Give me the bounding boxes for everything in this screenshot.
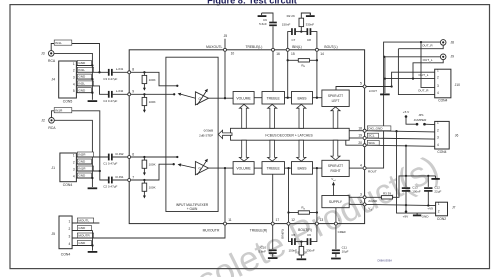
wire C4 to pin 9 [112,93,129,95]
pin 3 AGND [363,196,366,199]
connector J3 RCA jack [48,51,54,57]
connector J9 RCA jack [440,54,446,60]
resistor 100K (L-IN2) [142,97,147,105]
svg-text:CON4: CON4 [63,183,73,187]
svg-text:100K: 100K [149,163,156,167]
junction muxoutr [224,167,226,169]
svg-text:+ GAIN: + GAIN [187,207,198,211]
svg-text:1: 1 [73,153,75,157]
wire supply to pin2 [349,203,364,205]
wire J2 barrel to ground bus [54,120,92,164]
ground R2 [306,15,315,17]
svg-text:BASS: BASS [297,166,307,170]
capacitor C5 150nF [292,238,295,245]
net flag GND (J4 pin1) [77,61,91,66]
svg-text:C8: C8 [307,38,311,42]
svg-text:14: 14 [320,52,324,56]
wire 100K L2 top [143,94,145,97]
svg-text:R2 2K: R2 2K [287,14,295,18]
net flag IN2R (J1 pin1) [77,152,93,157]
resistor R1 2K [299,247,304,256]
wire SDA internal [346,140,365,145]
wire pin12 internal [288,168,290,224]
svg-text:C1 0.47µF: C1 0.47µF [103,162,117,166]
pin 6 R-IN2 [128,156,131,159]
latch arrow to SPKR ATT L [331,107,340,128]
svg-text:TREBLE: TREBLE [267,96,281,100]
pin 2 VS [363,203,366,206]
wire pin13 internal [316,168,318,224]
junction C12 VS [427,204,429,206]
svg-text:SUPPLY: SUPPLY [329,200,343,204]
arrow 100K R2 to ac ground [143,168,145,173]
svg-text:13: 13 [320,218,324,222]
latch arrow to SPKR ATT R [331,140,340,160]
svg-text:IN1R: IN1R [78,167,86,171]
svg-text:J7: J7 [452,206,456,210]
svg-text:1: 1 [437,69,439,73]
mux contact L-IN1 [176,85,178,87]
connector J10 CON4 body [435,69,451,98]
svg-text:15: 15 [291,52,295,56]
svg-text:5: 5 [360,82,362,86]
jumper JP1 pin B [423,123,426,126]
wire C7 to C8 [295,31,308,33]
svg-text:L-IN1: L-IN1 [116,67,124,71]
svg-text:MUXOUTL: MUXOUTL [206,45,222,49]
svg-text:5.6nF: 5.6nF [258,250,266,254]
wire OUT_R to J10 pin3 [421,42,435,87]
svg-text:1: 1 [437,121,439,125]
connector J7 CON2 body [436,202,448,216]
junction J1 bus pin4 [91,177,93,179]
mux contact R-IN2 [176,156,178,158]
svg-text:BOUT(L): BOUT(L) [324,45,337,49]
block VOLUME (right) [233,162,254,175]
wire J10 pin2 ground row [385,78,435,80]
wire J3 barrel to ground bus [54,53,92,65]
capacitor C10 5.6nF [269,250,277,253]
block I2C bus decoder and latches [231,128,350,140]
svg-text:11: 11 [228,218,232,222]
wire C6 to pin13 [310,224,317,242]
svg-text:IN2L: IN2L [78,82,85,86]
svg-text:2dB STEP: 2dB STEP [199,134,213,138]
pin 18 DIG_GND [363,129,366,132]
capacitor C9 5.6nF [269,23,277,26]
wire C13 top [405,176,407,187]
svg-text:CON5: CON5 [63,100,73,104]
svg-text:RIGHT: RIGHT [331,169,341,173]
svg-text:GND: GND [78,61,86,65]
wire pin10 test stub J5 [224,39,226,50]
connector J5 CON4 body [59,216,72,249]
wire J4 pin1 GND [76,65,92,67]
wire J4 pin3 GND [76,78,92,80]
svg-text:CREF: CREF [338,230,347,234]
wire R3 to ground link [393,176,436,197]
svg-text:IN1L: IN1L [78,68,85,72]
resistor Rb (left) [298,59,309,62]
svg-text:19: 19 [358,134,362,138]
pin 20 SDA [363,144,366,147]
svg-text:GND: GND [78,226,86,230]
junction C13 VS [405,204,407,206]
svg-text:2: 2 [73,160,75,164]
svg-text:+9V: +9V [403,215,410,219]
junction Rb-L left [287,59,289,61]
svg-text:4: 4 [437,91,439,95]
svg-text:JUMPER: JUMPER [414,118,427,122]
connector J4 CON5 body [59,61,77,98]
latch arrow to VOLUME R [239,140,248,161]
junction C13 top [405,175,407,177]
svg-text:IN1R: IN1R [55,109,63,113]
capacitor C4 0.47uF [109,91,112,98]
wire jumper to J6 pin1 [425,123,435,125]
wire SCL row [365,138,435,139]
wire J4 pin5 GND [76,92,92,94]
svg-text:17: 17 [276,218,280,222]
mux wiper (right) [181,165,196,168]
svg-text:100K: 100K [149,100,156,104]
wire J4 pin4 IN2L jog [76,86,108,94]
wire pin15 up to C7 [288,32,292,50]
wire J1 pin4 GND [76,177,92,179]
svg-text:10: 10 [231,52,235,56]
svg-text:C2 0.47µF: C2 0.47µF [103,185,117,189]
net flag GND (J4 pin5) [77,88,91,93]
pin 19 SCL [363,137,366,140]
pin 11 MUXOUTR [224,222,227,225]
junction J4 bus pin5 [91,92,93,94]
junction Rb-R left [287,211,289,213]
net flag IN1R (J2) [54,108,72,113]
svg-text:CON4: CON4 [61,252,71,256]
svg-text:3: 3 [360,193,362,197]
junction J9 barrel to gnd row [412,77,414,79]
wire C10 to ground [272,253,274,257]
svg-text:DIG_GND: DIG_GND [368,126,383,130]
wire 100K R1 top [143,180,145,183]
ground C9 [258,15,267,17]
wire J5 pin1 MOUTL [72,222,99,224]
wire Rb-R right stub [310,212,317,214]
svg-text:RCA: RCA [48,59,56,63]
svg-text:2: 2 [437,129,439,133]
wire R1 top [300,242,302,247]
wire Rb-R left stub [289,212,299,214]
wire treble-bass L [285,97,292,99]
svg-text:GND: GND [78,88,86,92]
block TREBLE (right) [262,162,285,175]
junction IN1L / J3 [98,71,100,73]
wire SDA row [365,145,435,146]
svg-text:R-IN2: R-IN2 [115,152,123,156]
svg-text:J9: J9 [451,55,455,59]
wire J8 barrel ground [398,45,443,49]
svg-text:10µF: 10µF [342,250,349,254]
arrow 100K L2 to ac ground [143,106,145,111]
wire 100K L1 top [143,72,145,75]
junction gnd bus pin2 row [384,77,386,79]
wire J1 pin1 IN2R to C1 [76,156,108,158]
block BASS (right) [292,162,313,175]
svg-text:18: 18 [358,126,362,130]
wire pin17 internal [272,174,274,223]
svg-text:12: 12 [291,218,295,222]
wire C2 to pin 7 [112,179,129,181]
svg-text:GND: GND [78,241,86,245]
wire J4 pin2 IN1L to C3 [76,71,108,73]
wire L-IN1 internal [129,72,177,86]
capacitor C11 10uF [332,250,340,253]
svg-text:+V9: +V9 [427,207,433,211]
wire VS row [365,204,436,205]
svg-text:OUT_R: OUT_R [418,88,429,92]
wire DIG_GND to GND row [397,131,436,213]
svg-text:OUT_L: OUT_L [423,58,433,62]
Vref arrow [333,185,335,196]
mux contact L-IN2 [173,93,175,95]
wire J3 to IN1L node [51,44,99,73]
wire J4 ground bus [91,66,93,100]
wire DIG_GND row [365,131,435,132]
net flag GND (J1 pin2) [77,159,91,164]
wire SDA link down [405,146,407,176]
block SUPPLY [322,196,349,208]
junction BIN(L) chain [287,97,289,99]
svg-text:C7: C7 [291,38,295,42]
wire pin12 to C5 [289,224,292,242]
wire J5 pin2 GND [72,230,92,232]
svg-text:J5: J5 [224,34,228,38]
block SPKR ATT RIGHT [322,160,349,176]
svg-text:J10: J10 [455,83,460,87]
svg-text:J4: J4 [51,78,55,82]
wire C8 to pin14 [310,32,317,50]
pin 17 TREBLE(R) [271,222,274,225]
net flag GND (J5 pin4) [77,241,91,246]
capacitor C12 22uF [424,188,432,191]
resistor 100K (L-IN1) [142,75,147,83]
svg-text:7: 7 [132,175,134,179]
junction BOUT(R) chain [316,167,318,169]
svg-text:TREBLE: TREBLE [267,166,281,170]
junction BOUT(L) chain [316,97,318,99]
svg-text:4: 4 [73,174,75,178]
pin 12 BIN(R) [287,222,290,225]
svg-text:16: 16 [276,52,280,56]
wire pin17 to C10 [272,224,274,250]
wire J5 pin3 MOUTR to pin 11 [72,224,225,238]
wire pin10 internal [224,50,226,98]
svg-text:5.6nF: 5.6nF [259,22,267,26]
svg-text:IN2R: IN2R [78,153,86,157]
jumper JP1 pin A [416,123,419,126]
svg-text:GND: GND [78,75,86,79]
junction C12 top [427,175,429,177]
wire bass-spkr R [313,167,322,169]
svg-text:SCL: SCL [368,134,374,138]
mux contact R-IN1 [173,163,175,165]
ground J4 bus [88,100,98,102]
capacitor C6 330nF [307,238,310,245]
svg-text:BIN(L): BIN(L) [292,45,302,49]
svg-text:3: 3 [437,84,439,88]
svg-text:J3: J3 [41,51,45,55]
junction C7-C8-R2 [300,30,302,32]
svg-text:MOUTR: MOUTR [78,234,90,238]
wire R-IN2 internal [129,156,177,158]
resistor Rb (right) [298,211,309,214]
block VOLUME (left) [233,92,254,105]
wire barrel bus to J10 pin4 [398,49,434,95]
pin 13 BOUT(R) [315,222,318,225]
wire +9V stub [405,205,407,212]
wire J2 to IN1R node [52,111,100,171]
junction Rb-L right [316,59,318,61]
node +5V terminal [405,115,408,118]
svg-text:J2: J2 [41,119,45,123]
net flag GND (J5 pin2) [77,226,91,231]
wire C1 to pin 6 [112,156,129,158]
junction BIN(R) chain [287,167,289,169]
ground R1 [297,258,307,260]
pin 9 L-IN2 [128,93,131,96]
wire J5 ground bus [92,231,94,251]
svg-text:100K: 100K [149,78,156,82]
svg-text:5: 5 [73,89,75,93]
svg-text:LEFT: LEFT [332,99,340,103]
wire C9 to ground [262,13,273,23]
latch arrow to input multiplexer [218,130,232,138]
svg-text:3: 3 [73,76,75,80]
wire pin1 to C11 [335,224,337,250]
ground output bus [380,93,390,95]
net flag SDA [367,140,379,145]
ground J5 bus [88,251,98,253]
net flag IN1R (J1 pin3) [77,166,93,171]
wire amp R out [209,167,234,169]
wire ROUT riser to J8 [365,42,441,168]
svg-text:LOUT: LOUT [369,89,377,93]
svg-text:9: 9 [132,90,134,94]
net flag DIG_GND [367,126,391,131]
svg-text:6: 6 [132,152,134,156]
svg-text:CON4: CON4 [437,150,446,154]
svg-text:2: 2 [438,210,440,214]
wire 100K R2 top [143,157,145,160]
svg-text:R-IN1: R-IN1 [115,175,123,179]
svg-text:C4 0.47µF: C4 0.47µF [103,99,117,103]
svg-text:4: 4 [437,143,439,147]
wire volume-treble L [254,97,262,99]
wire pin3 to R3 [365,196,382,198]
wire pin11 internal [224,168,226,224]
svg-text:BOUT(R): BOUT(R) [298,228,312,232]
wire LOUT row [365,86,392,88]
svg-text:ROUT: ROUT [368,170,377,174]
connector J2 RCA jack [49,118,55,124]
arrow 100K R1 to ac ground [143,191,145,196]
wire spkrL to pin5 [336,87,365,91]
svg-text:+5 V: +5 V [403,110,410,114]
svg-text:0/30dB: 0/30dB [204,129,214,133]
svg-text:BIN(R): BIN(R) [281,229,285,238]
svg-text:D98AU939A: D98AU939A [378,259,393,263]
wire C11 to ground [335,253,337,257]
wire DIG_GND internal [349,130,364,132]
connector J1 CON4 body [60,153,77,182]
svg-text:GND: GND [422,215,430,219]
junction LOUT riser [390,85,392,87]
junction muxoutl [224,97,226,99]
capacitor C8 330nF [307,28,310,35]
resistor R3 39 [382,196,393,199]
svg-text:100nF: 100nF [412,189,421,193]
wire R1 to ground [300,255,302,258]
svg-text:I²CBUS DECODER + LATCHES: I²CBUS DECODER + LATCHES [265,134,313,138]
svg-text:RCA: RCA [48,126,56,130]
svg-text:CON4: CON4 [438,99,447,103]
svg-text:JP1: JP1 [418,113,424,117]
ground C11 [331,258,341,260]
svg-text:TREBLE(L): TREBLE(L) [245,45,262,49]
pin 10 MUXOUTL [224,48,227,51]
svg-text:OUT_L: OUT_L [419,73,429,77]
junction SDA link [405,145,407,147]
svg-text:R3 39: R3 39 [383,192,391,196]
wire treble-bass R [285,167,292,169]
junction 100K R-R1 [143,179,145,181]
ground link [431,178,439,180]
svg-text:BASS: BASS [297,96,307,100]
junction J5 bus pin4 [91,244,93,246]
svg-text:2: 2 [437,75,439,79]
svg-text:1: 1 [338,218,340,222]
latch arrow to VOLUME L [239,104,248,128]
svg-text:TREBLE(R): TREBLE(R) [250,228,267,232]
svg-text:OUT_R: OUT_R [422,44,433,48]
input multiplexer box [166,57,218,211]
svg-text:MUXOUTR: MUXOUTR [203,228,220,232]
latch arrow to TREBLE R [268,140,277,161]
junction J4 bus pin1 [91,64,93,66]
svg-text:GND: GND [78,160,86,164]
wire supply to pin1 CREF [335,208,337,224]
wire Rb-L right stub [310,59,317,61]
svg-text:R1: R1 [295,251,299,255]
pin 7 R-IN1 [128,179,131,182]
svg-text:2: 2 [73,69,75,73]
svg-text:3: 3 [437,136,439,140]
junction IN1R / J2 [99,170,101,172]
svg-text:GND: GND [78,174,86,178]
gain arrow (right amp) [197,161,206,175]
wire R-IN1 internal [129,164,174,180]
svg-text:SPKR ATT: SPKR ATT [328,94,343,98]
svg-text:2: 2 [360,200,362,204]
junction OUT_L row start [383,56,385,58]
wire volume-treble R [254,167,262,169]
wire pin16 internal [272,50,274,92]
wire SCL internal [349,137,364,139]
capacitor C3 0.47uF [109,69,112,76]
junction C5-C6-R1 [300,240,302,242]
wire R2 to ground [301,13,310,18]
svg-text:IN1L: IN1L [55,41,62,45]
